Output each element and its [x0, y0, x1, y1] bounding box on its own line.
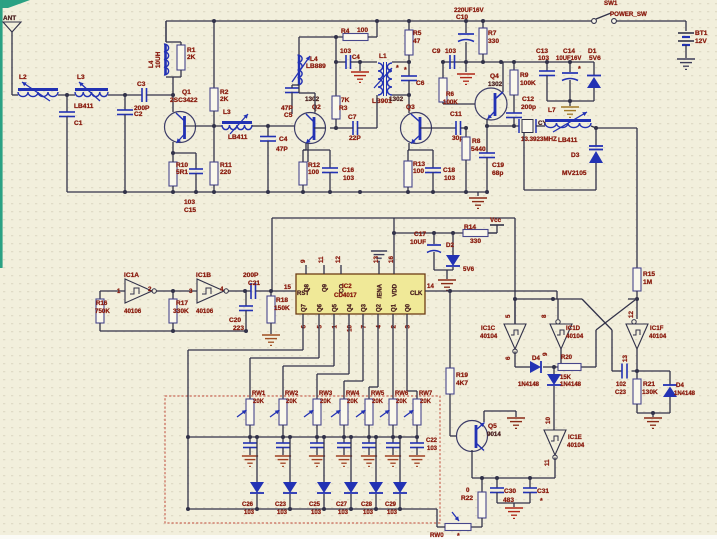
svg-text:R9: R9: [520, 72, 529, 79]
svg-text:100: 100: [308, 169, 319, 176]
svg-text:VDD: VDD: [393, 283, 399, 296]
svg-text:4K7: 4K7: [456, 380, 468, 387]
svg-text:R16: R16: [96, 300, 108, 307]
svg-text:C2: C2: [134, 111, 143, 118]
svg-text:LB411: LB411: [228, 134, 248, 141]
svg-text:200P: 200P: [134, 105, 150, 112]
svg-text:5: 5: [505, 314, 512, 318]
svg-text:*: *: [457, 533, 460, 539]
svg-text:IC1E: IC1E: [568, 434, 582, 441]
svg-text:4: 4: [220, 286, 224, 293]
svg-text:IC1C: IC1C: [481, 325, 496, 332]
svg-text:Q3: Q3: [406, 104, 415, 111]
svg-text:11: 11: [318, 256, 325, 263]
svg-text:C7: C7: [348, 114, 357, 121]
svg-text:5V6: 5V6: [463, 266, 475, 273]
svg-text:*: *: [578, 66, 581, 73]
svg-text:IC1F: IC1F: [650, 325, 664, 332]
svg-text:150K: 150K: [274, 305, 290, 312]
svg-text:6: 6: [505, 356, 512, 360]
svg-text:22P: 22P: [349, 135, 361, 142]
svg-text:5: 5: [317, 324, 324, 328]
svg-text:C15: C15: [184, 207, 196, 214]
svg-text:20K: 20K: [372, 399, 384, 405]
svg-text:9: 9: [542, 352, 549, 356]
svg-text:12V: 12V: [695, 38, 707, 45]
svg-text:C18: C18: [443, 167, 455, 174]
svg-text:C14: C14: [563, 48, 575, 55]
svg-text:C5: C5: [284, 112, 293, 119]
svg-text:Q0: Q0: [406, 303, 412, 312]
svg-text:100: 100: [357, 27, 368, 34]
svg-text:RST: RST: [297, 291, 309, 297]
svg-text:103: 103: [277, 510, 288, 516]
svg-text:103: 103: [444, 175, 455, 182]
svg-text:13: 13: [622, 355, 629, 362]
svg-text:R11: R11: [220, 162, 232, 169]
svg-text:LB889: LB889: [306, 63, 326, 70]
svg-text:BT1: BT1: [695, 30, 708, 37]
svg-text:103: 103: [363, 510, 374, 516]
svg-text:103: 103: [538, 55, 549, 62]
svg-text:Q2: Q2: [377, 303, 383, 312]
svg-text:C23: C23: [275, 502, 287, 508]
svg-text:C25: C25: [309, 502, 321, 508]
svg-text:C4: C4: [352, 55, 360, 61]
svg-text:RW1: RW1: [252, 391, 266, 397]
svg-text:C12: C12: [522, 96, 534, 103]
svg-text:103: 103: [445, 48, 456, 55]
svg-text:L7: L7: [548, 107, 556, 114]
svg-text:750K: 750K: [95, 308, 110, 315]
svg-text:3: 3: [189, 288, 193, 295]
svg-text:LB411: LB411: [558, 137, 578, 144]
svg-text:220UF16V: 220UF16V: [454, 7, 484, 14]
svg-text:20K: 20K: [286, 399, 298, 405]
svg-text:1302: 1302: [488, 81, 503, 88]
svg-text:R12: R12: [308, 162, 320, 169]
svg-text:Q3: Q3: [362, 303, 368, 312]
svg-text:4: 4: [376, 324, 383, 328]
svg-text:R18: R18: [276, 297, 288, 304]
svg-text:C6: C6: [416, 80, 425, 87]
svg-text:LB411: LB411: [74, 103, 94, 110]
svg-text:Vcc: Vcc: [490, 217, 502, 224]
svg-text:C16: C16: [342, 167, 354, 174]
svg-text:47P: 47P: [276, 146, 288, 153]
svg-text:10UH: 10UH: [155, 51, 162, 68]
svg-text:RW6: RW6: [395, 391, 409, 397]
svg-text:15K: 15K: [560, 375, 572, 381]
svg-text:IC1B: IC1B: [196, 272, 211, 279]
svg-text:330: 330: [470, 238, 481, 245]
svg-text:7K: 7K: [341, 97, 350, 104]
svg-text:C17: C17: [414, 231, 426, 238]
svg-text:RW7: RW7: [419, 391, 433, 397]
svg-text:L3: L3: [223, 109, 231, 116]
svg-text:102: 102: [616, 382, 627, 388]
svg-text:1M: 1M: [643, 279, 653, 286]
svg-text:6: 6: [301, 324, 308, 328]
svg-text:*: *: [540, 498, 543, 505]
svg-text:C13: C13: [536, 48, 548, 55]
svg-text:D4: D4: [676, 382, 684, 389]
svg-text:2SC3422: 2SC3422: [170, 97, 198, 104]
svg-text:C31: C31: [537, 488, 549, 495]
svg-text:R10: R10: [176, 162, 188, 169]
svg-text:8: 8: [541, 314, 548, 318]
svg-text:RW2: RW2: [285, 391, 299, 397]
svg-text:Q6: Q6: [318, 303, 324, 312]
svg-text:1: 1: [332, 324, 339, 328]
svg-text:R4: R4: [341, 28, 350, 35]
svg-text:C4: C4: [279, 136, 288, 143]
svg-text:40106: 40106: [196, 308, 214, 315]
svg-text:20K: 20K: [420, 399, 432, 405]
svg-text:RW3: RW3: [319, 391, 333, 397]
svg-text:40104: 40104: [649, 333, 667, 340]
svg-text:L4: L4: [310, 56, 318, 63]
svg-text:5V6: 5V6: [589, 55, 601, 62]
svg-text:R17: R17: [176, 300, 188, 307]
svg-text:POWER_SW: POWER_SW: [610, 11, 647, 18]
svg-text:C10: C10: [456, 14, 468, 21]
svg-text:C29: C29: [385, 502, 397, 508]
svg-text:100K: 100K: [520, 80, 536, 87]
svg-text:200P: 200P: [243, 272, 259, 279]
svg-text:100: 100: [413, 168, 424, 175]
svg-text:1N4148: 1N4148: [560, 382, 582, 388]
svg-text:C23: C23: [615, 390, 627, 396]
svg-text:20K: 20K: [253, 399, 265, 405]
svg-text:Q4: Q4: [348, 303, 354, 312]
svg-text:103: 103: [338, 510, 349, 516]
svg-text:2K: 2K: [187, 54, 196, 61]
svg-text:0: 0: [466, 487, 470, 494]
svg-text:10: 10: [545, 417, 552, 424]
svg-text:Q5: Q5: [333, 303, 339, 312]
svg-text:*: *: [404, 67, 407, 74]
svg-text:L4: L4: [148, 60, 155, 68]
svg-text:3: 3: [405, 324, 412, 328]
svg-text:R3: R3: [339, 105, 348, 112]
svg-text:C26: C26: [242, 502, 254, 508]
svg-text:IC2: IC2: [342, 283, 352, 290]
svg-text:223: 223: [233, 325, 244, 332]
svg-text:103: 103: [387, 510, 398, 516]
svg-text:68p: 68p: [492, 170, 503, 177]
svg-text:2: 2: [391, 324, 398, 328]
svg-text:10UF16V: 10UF16V: [556, 56, 581, 62]
svg-text:C19: C19: [492, 162, 504, 169]
svg-text:L3: L3: [77, 74, 85, 81]
svg-text:RW4: RW4: [346, 391, 360, 397]
svg-text:R8: R8: [472, 138, 481, 145]
svg-text:103: 103: [340, 48, 351, 55]
svg-text:R21: R21: [643, 381, 655, 388]
svg-text:12: 12: [335, 256, 342, 263]
svg-text:12: 12: [628, 311, 635, 318]
svg-text:SW1: SW1: [604, 0, 618, 7]
svg-text:483: 483: [503, 497, 514, 504]
svg-text:10UF: 10UF: [410, 239, 426, 246]
svg-text:R2: R2: [220, 89, 229, 96]
svg-text:130K: 130K: [642, 389, 658, 396]
svg-text:330: 330: [488, 38, 499, 45]
svg-text:100K: 100K: [443, 99, 458, 106]
svg-text:40104: 40104: [566, 333, 584, 340]
svg-text:20K: 20K: [320, 399, 332, 405]
svg-text:C21: C21: [248, 280, 260, 287]
svg-text:C22: C22: [426, 438, 438, 444]
svg-text:330K: 330K: [173, 308, 189, 315]
svg-text:40104: 40104: [480, 333, 498, 340]
svg-text:ANT: ANT: [3, 15, 16, 22]
svg-text:9: 9: [300, 259, 307, 263]
svg-text:1302: 1302: [305, 96, 320, 103]
svg-text:200p: 200p: [521, 104, 536, 111]
svg-text:D2: D2: [446, 242, 454, 249]
svg-text:R22: R22: [461, 495, 473, 502]
svg-text:CD4017: CD4017: [334, 292, 357, 299]
svg-text:Q1: Q1: [182, 89, 191, 96]
svg-text:2K: 2K: [220, 96, 229, 103]
svg-text:20K: 20K: [347, 399, 359, 405]
svg-text:1N4148: 1N4148: [674, 391, 696, 397]
svg-text:D4: D4: [532, 355, 540, 362]
svg-text:R5: R5: [413, 30, 422, 37]
svg-text:9014: 9014: [487, 431, 501, 438]
svg-text:C20: C20: [229, 317, 241, 324]
svg-text:47: 47: [413, 38, 421, 45]
svg-text:C11: C11: [450, 111, 462, 118]
svg-text:Q5: Q5: [488, 423, 497, 430]
svg-text:Q4: Q4: [490, 73, 499, 80]
svg-text:103: 103: [343, 175, 354, 182]
svg-text:RW0: RW0: [430, 532, 444, 539]
svg-text:IC1A: IC1A: [124, 272, 139, 279]
svg-text:RW5: RW5: [371, 391, 385, 397]
svg-text:103: 103: [244, 510, 255, 516]
svg-text:MV2105: MV2105: [562, 170, 587, 177]
svg-text:1N4148: 1N4148: [518, 382, 540, 388]
svg-text:13.3923MHZ: 13.3923MHZ: [521, 136, 557, 143]
svg-text:R15: R15: [643, 271, 655, 278]
svg-text:10: 10: [347, 324, 354, 331]
svg-text:C28: C28: [361, 502, 373, 508]
svg-text:R14: R14: [464, 224, 476, 231]
svg-text:Q7: Q7: [302, 303, 308, 312]
svg-text:2: 2: [148, 286, 152, 293]
svg-text:C1: C1: [74, 120, 83, 127]
svg-text:5440: 5440: [471, 146, 486, 153]
svg-text:11: 11: [544, 459, 551, 466]
svg-text:R1: R1: [187, 47, 196, 54]
svg-text:103: 103: [427, 446, 438, 452]
svg-text:R6: R6: [446, 91, 454, 98]
svg-text:47P: 47P: [281, 105, 293, 112]
svg-text:40104: 40104: [567, 442, 585, 449]
svg-text:1: 1: [117, 288, 121, 295]
svg-text:L1: L1: [379, 53, 387, 60]
svg-text:R7: R7: [488, 30, 497, 37]
svg-text:D3: D3: [571, 152, 580, 159]
svg-text:Q1: Q1: [392, 303, 398, 312]
svg-text:220: 220: [220, 169, 231, 176]
svg-text:1302: 1302: [389, 96, 404, 103]
svg-text:D1: D1: [588, 48, 597, 55]
svg-text:*: *: [396, 65, 399, 72]
svg-text:40106: 40106: [124, 308, 142, 315]
svg-text:14: 14: [427, 283, 434, 290]
svg-text:Q9: Q9: [323, 283, 329, 292]
svg-text:R20: R20: [561, 355, 573, 361]
svg-text:15: 15: [284, 284, 291, 291]
svg-text:20K: 20K: [396, 399, 408, 405]
svg-text:103: 103: [311, 510, 322, 516]
svg-text:Q2: Q2: [312, 104, 321, 111]
svg-text:5R1: 5R1: [176, 169, 188, 176]
svg-text:C9: C9: [432, 48, 441, 55]
svg-text:L2: L2: [19, 74, 27, 81]
svg-text:IC1D: IC1D: [566, 325, 581, 332]
svg-text:C3: C3: [137, 81, 146, 88]
svg-text:103: 103: [184, 199, 195, 206]
svg-text:/ENA: /ENA: [378, 283, 384, 298]
svg-text:CLK: CLK: [410, 291, 423, 297]
svg-text:7: 7: [361, 324, 368, 328]
svg-text:C30: C30: [504, 488, 516, 495]
svg-text:R13: R13: [413, 161, 425, 168]
svg-text:R19: R19: [456, 372, 468, 379]
svg-text:C27: C27: [336, 502, 348, 508]
